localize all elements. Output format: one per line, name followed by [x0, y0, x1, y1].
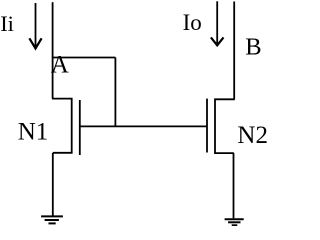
wire: node A down to N1 drain — [52, 57, 54, 99]
svg-text:N2: N2 — [237, 122, 268, 149]
N1 channel plate with drain/source jogs — [52, 99, 72, 153]
wire: gate bus N1 to N2 — [80, 125, 207, 127]
wire: Ii input to node A — [52, 2, 54, 57]
current arrow Ii — [29, 3, 41, 49]
ground (left) — [41, 216, 63, 223]
svg-text:N1: N1 — [18, 119, 49, 146]
N1 gate bar — [79, 100, 81, 155]
wire: Io input to node B — [233, 2, 235, 100]
svg-text:Io: Io — [183, 10, 202, 35]
svg-text:A: A — [51, 51, 69, 78]
svg-text:B: B — [245, 33, 261, 60]
ground (right) — [225, 219, 244, 225]
transistor N1 — [52, 99, 80, 155]
current arrow Io — [211, 1, 224, 45]
N2 gate bar — [206, 99, 208, 153]
wire: N1 source to ground — [52, 153, 54, 217]
wire: gate link vertical down — [114, 58, 116, 127]
N2 channel plate with drain/source jogs — [215, 99, 235, 153]
transistor N2 — [207, 99, 235, 154]
wire: node A to gate link (horizontal) — [53, 57, 116, 59]
svg-text:Ii: Ii — [0, 11, 14, 36]
wire: N2 source to ground — [233, 153, 235, 218]
